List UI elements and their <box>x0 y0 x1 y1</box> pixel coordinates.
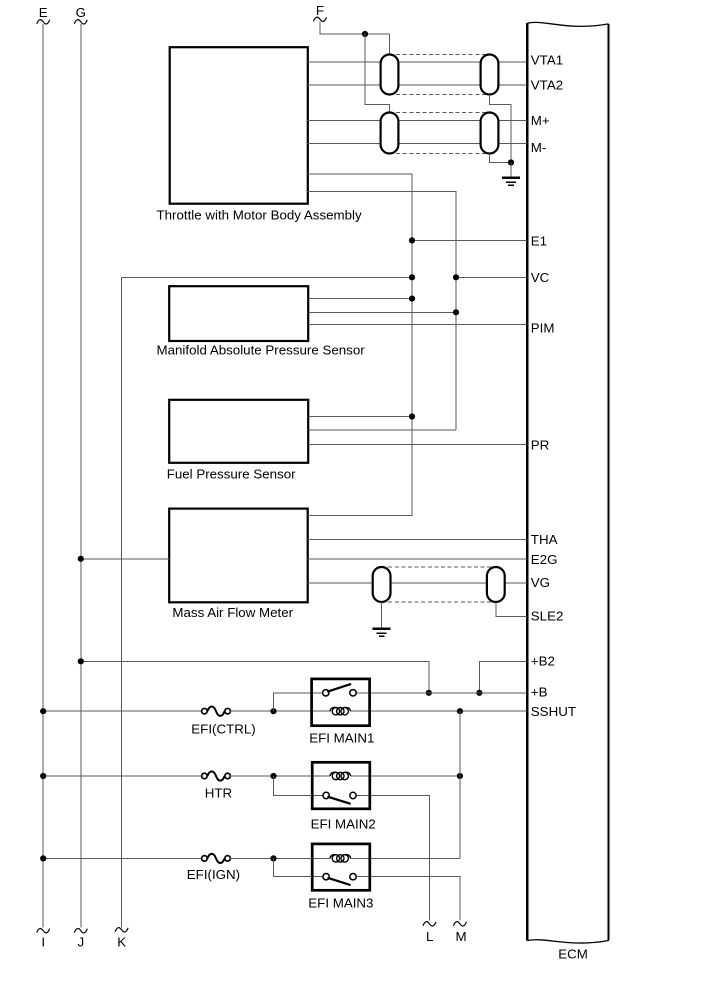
wire M+ <box>308 119 528 121</box>
fuel pressure sensor label <box>167 466 296 481</box>
pin VTA2 label <box>531 77 563 92</box>
pin +B label <box>531 685 548 700</box>
relay MAIN3 coil <box>330 855 351 862</box>
wire SSHUT control vertical <box>459 711 461 858</box>
node K label <box>117 935 126 950</box>
wire E1 <box>412 239 527 241</box>
relay MAIN1 switch blade <box>328 684 350 691</box>
node M label <box>455 929 466 944</box>
svg-text:M-: M- <box>531 140 547 155</box>
relay EFI MAIN1 box <box>312 679 370 726</box>
svg-text:EFI(IGN): EFI(IGN) <box>187 867 240 882</box>
wire MAIN3 coil out <box>351 857 460 859</box>
wire MAP VC <box>308 311 456 313</box>
wire HTR fuse to coil <box>230 775 330 777</box>
relay EFI MAIN1 label <box>309 731 374 746</box>
fuse HTR label <box>205 786 232 801</box>
throttle body label <box>157 208 363 223</box>
svg-text:VTA1: VTA1 <box>531 53 563 68</box>
node SSHUT control junction <box>457 708 463 714</box>
shield oval 3 (M left) <box>381 113 399 154</box>
wire HTR from E rail <box>43 775 202 777</box>
wire throttle E2 feed <box>308 174 412 515</box>
node MAIN2 coil control junction <box>457 773 463 779</box>
pin VTA1 label <box>531 53 563 68</box>
svg-text:M: M <box>455 929 466 944</box>
svg-text:PR: PR <box>531 438 550 453</box>
wire F drop into shield oval 1 <box>389 34 391 55</box>
node G-MAF junction <box>78 556 84 562</box>
ECM label <box>558 946 588 961</box>
svg-text:M+: M+ <box>531 113 550 128</box>
node MAIN2 branch junction <box>270 773 276 779</box>
node fuel ground junction <box>409 413 415 419</box>
svg-text:Fuel Pressure Sensor: Fuel Pressure Sensor <box>167 466 296 481</box>
shield oval 2 (VTA right) <box>481 55 499 95</box>
wire VC right segment <box>456 276 527 278</box>
relay MAIN2 switch contact right <box>350 792 356 798</box>
svg-text:EFI MAIN3: EFI MAIN3 <box>308 896 373 911</box>
wire IGN fuse to coil <box>230 857 330 859</box>
node VC-ground junction <box>409 274 415 280</box>
svg-text:EFI MAIN2: EFI MAIN2 <box>311 816 376 831</box>
pin SSHUT label <box>531 704 576 719</box>
svg-text:Mass Air Flow Meter: Mass Air Flow Meter <box>172 605 293 620</box>
node MAIN3 branch junction <box>270 855 276 861</box>
wire VC left segment <box>122 276 412 278</box>
node E-IGN junction <box>40 855 46 861</box>
relay MAIN2 coil <box>330 772 351 779</box>
MAP sensor label <box>157 343 366 358</box>
wire ground stem <box>510 163 512 178</box>
node J label <box>77 935 84 950</box>
svg-text:THA: THA <box>531 532 558 547</box>
relay EFI MAIN3 box <box>312 844 370 890</box>
pin VG label <box>531 575 550 590</box>
pin E1 label <box>531 234 547 249</box>
svg-text:Throttle with Motor Body Assem: Throttle with Motor Body Assembly <box>157 208 363 223</box>
wire MAF ground <box>308 514 412 516</box>
relay EFI MAIN2 label <box>311 816 376 831</box>
wire throttle VC feed <box>308 192 456 430</box>
wire MAIN3 switch out to M <box>356 877 460 921</box>
node I label <box>41 935 45 950</box>
svg-text:HTR: HTR <box>205 786 232 801</box>
wire E rail vertical <box>42 24 44 928</box>
wire fuel sensor VC <box>308 429 456 431</box>
wire EFI(IGN) from E rail <box>43 857 202 859</box>
node MAP VC junction <box>453 309 459 315</box>
relay MAIN3 switch contact right <box>350 874 356 880</box>
shield dashes VTA bottom <box>390 94 490 96</box>
svg-text:Manifold Absolute Pressure Sen: Manifold Absolute Pressure Sensor <box>157 343 366 358</box>
pin M+ label <box>531 113 550 128</box>
svg-text:PIM: PIM <box>531 321 555 336</box>
node M break symbol <box>453 922 466 926</box>
shield dashes VG bottom <box>382 601 496 603</box>
shield oval 6 (VG right) <box>487 567 505 602</box>
svg-text:+B2: +B2 <box>531 653 555 668</box>
node +B2 stub junction <box>476 690 482 696</box>
svg-text:+B: +B <box>531 685 548 700</box>
shield dashes VG top <box>382 566 496 568</box>
wire PIM <box>308 324 527 326</box>
wire shield drain oval2 <box>490 95 512 163</box>
pin E2G label <box>531 552 558 567</box>
wire SSHUT fuse to coil <box>230 710 330 712</box>
ECM left edge <box>526 23 528 940</box>
wire VTA2 <box>308 84 528 86</box>
fuse EFI(CTRL) label <box>191 722 255 737</box>
fuse EFI(IGN) <box>202 854 231 863</box>
node E1 junction <box>409 237 415 243</box>
relay MAIN3 switch contact left <box>323 874 329 880</box>
svg-text:K: K <box>117 935 126 950</box>
svg-text:ECM: ECM <box>558 946 588 961</box>
wire E2G <box>308 558 528 560</box>
wire SLE2 <box>496 602 527 617</box>
wire MAF shield ground stem <box>381 602 383 628</box>
node +B2 drop junction <box>426 690 432 696</box>
node E label <box>39 5 48 20</box>
relay MAIN2 switch contact left <box>323 792 329 798</box>
wire shield drain oval4 <box>490 154 512 163</box>
node F branch junction <box>362 31 368 37</box>
svg-text:VC: VC <box>531 270 550 285</box>
wire MAF left to G rail <box>81 558 170 560</box>
wire +B2 rail <box>81 661 429 693</box>
wire VTA1 <box>308 61 528 63</box>
MAF meter label <box>172 605 293 620</box>
node K break symbol <box>115 928 128 932</box>
pin THA label <box>531 532 558 547</box>
relay MAIN1 switch contact left <box>323 690 329 696</box>
wire VG <box>308 582 528 584</box>
shield oval 5 (VG left) <box>373 567 391 602</box>
fuel pressure sensor box <box>169 400 308 463</box>
node L label <box>426 929 433 944</box>
wire SSHUT from E rail <box>43 710 202 712</box>
wire SSHUT coil to ECM <box>351 710 528 712</box>
wire MAIN2 switch out to L <box>356 796 429 921</box>
shield drain junction <box>508 159 514 165</box>
svg-text:E: E <box>39 5 48 20</box>
svg-text:E2G: E2G <box>531 552 558 567</box>
node G label <box>76 5 86 20</box>
node MAP ground junction <box>409 296 415 302</box>
shield dashes VTA top <box>390 54 490 56</box>
svg-text:E1: E1 <box>531 234 547 249</box>
pin +B2 label <box>531 653 555 668</box>
node E-HTR junction <box>40 773 46 779</box>
ECM bottom torn edge <box>527 940 608 943</box>
pin PR label <box>531 438 550 453</box>
ECM top torn edge <box>527 22 608 26</box>
wire fuel sensor ground <box>308 416 412 418</box>
wire MAIN3 switch feed <box>274 858 323 876</box>
svg-text:VTA2: VTA2 <box>531 77 563 92</box>
relay EFI MAIN2 box <box>312 762 370 809</box>
fuse EFI(CTRL) <box>202 707 231 716</box>
svg-text:J: J <box>77 935 84 950</box>
fuse HTR <box>202 771 231 780</box>
svg-text:SSHUT: SSHUT <box>531 704 576 719</box>
node L break symbol <box>423 922 436 926</box>
svg-text:F: F <box>316 3 324 18</box>
svg-text:I: I <box>41 935 45 950</box>
wire PR <box>308 443 527 445</box>
relay MAIN1 switch contact right <box>350 690 356 696</box>
pin VC label <box>531 270 550 285</box>
relay MAIN2 switch blade <box>328 797 349 804</box>
wire M- <box>308 142 528 144</box>
throttle with motor body assembly box <box>170 47 308 204</box>
pin SLE2 label <box>531 609 564 624</box>
ECM right edge <box>607 24 609 941</box>
svg-text:L: L <box>426 929 433 944</box>
fuse EFI(IGN) label <box>187 867 240 882</box>
wire F branch to shield oval 3 <box>365 34 390 113</box>
relay EFI MAIN3 label <box>308 896 373 911</box>
node VC junction <box>453 274 459 280</box>
wire MAP ground <box>308 298 412 300</box>
mass air flow meter box <box>169 509 308 603</box>
pin PIM label <box>531 321 555 336</box>
svg-text:SLE2: SLE2 <box>531 609 564 624</box>
svg-text:EFI MAIN1: EFI MAIN1 <box>309 731 374 746</box>
shield dashes M top <box>390 112 490 114</box>
svg-text:VG: VG <box>531 575 550 590</box>
svg-text:G: G <box>76 5 86 20</box>
shield oval 4 (M right) <box>481 113 499 154</box>
node F break symbol <box>314 17 327 21</box>
wire MAIN2 coil out <box>351 775 460 777</box>
node I break symbol <box>37 929 50 933</box>
manifold absolute pressure sensor box <box>169 286 308 341</box>
node MAIN1 branch junction <box>270 708 276 714</box>
pin M- label <box>531 140 547 155</box>
relay MAIN3 switch blade <box>328 878 349 885</box>
svg-text:EFI(CTRL): EFI(CTRL) <box>191 722 255 737</box>
wire K rail vertical <box>121 277 123 927</box>
shield oval 1 (VTA left) <box>381 55 399 95</box>
shield dashes M bottom <box>390 153 490 155</box>
wire +B2 pin stub <box>479 661 527 693</box>
node E-SSHUT junction <box>40 708 46 714</box>
relay MAIN1 coil <box>330 707 351 714</box>
node G-+B2 junction <box>78 658 84 664</box>
ground symbol (MAF shield) <box>373 629 391 637</box>
node F label <box>316 3 324 18</box>
wire F lead <box>320 22 390 35</box>
wire MAIN1 switch feed <box>274 693 323 711</box>
wire +B switch to ECM <box>356 692 527 694</box>
wire G rail vertical <box>80 24 82 928</box>
node G break symbol top <box>74 20 87 24</box>
ground symbol (shield) <box>502 178 520 186</box>
wire MAIN2 switch feed <box>274 776 323 796</box>
node J break symbol <box>74 929 87 933</box>
node E break symbol top <box>37 20 50 24</box>
wire THA <box>308 539 528 541</box>
